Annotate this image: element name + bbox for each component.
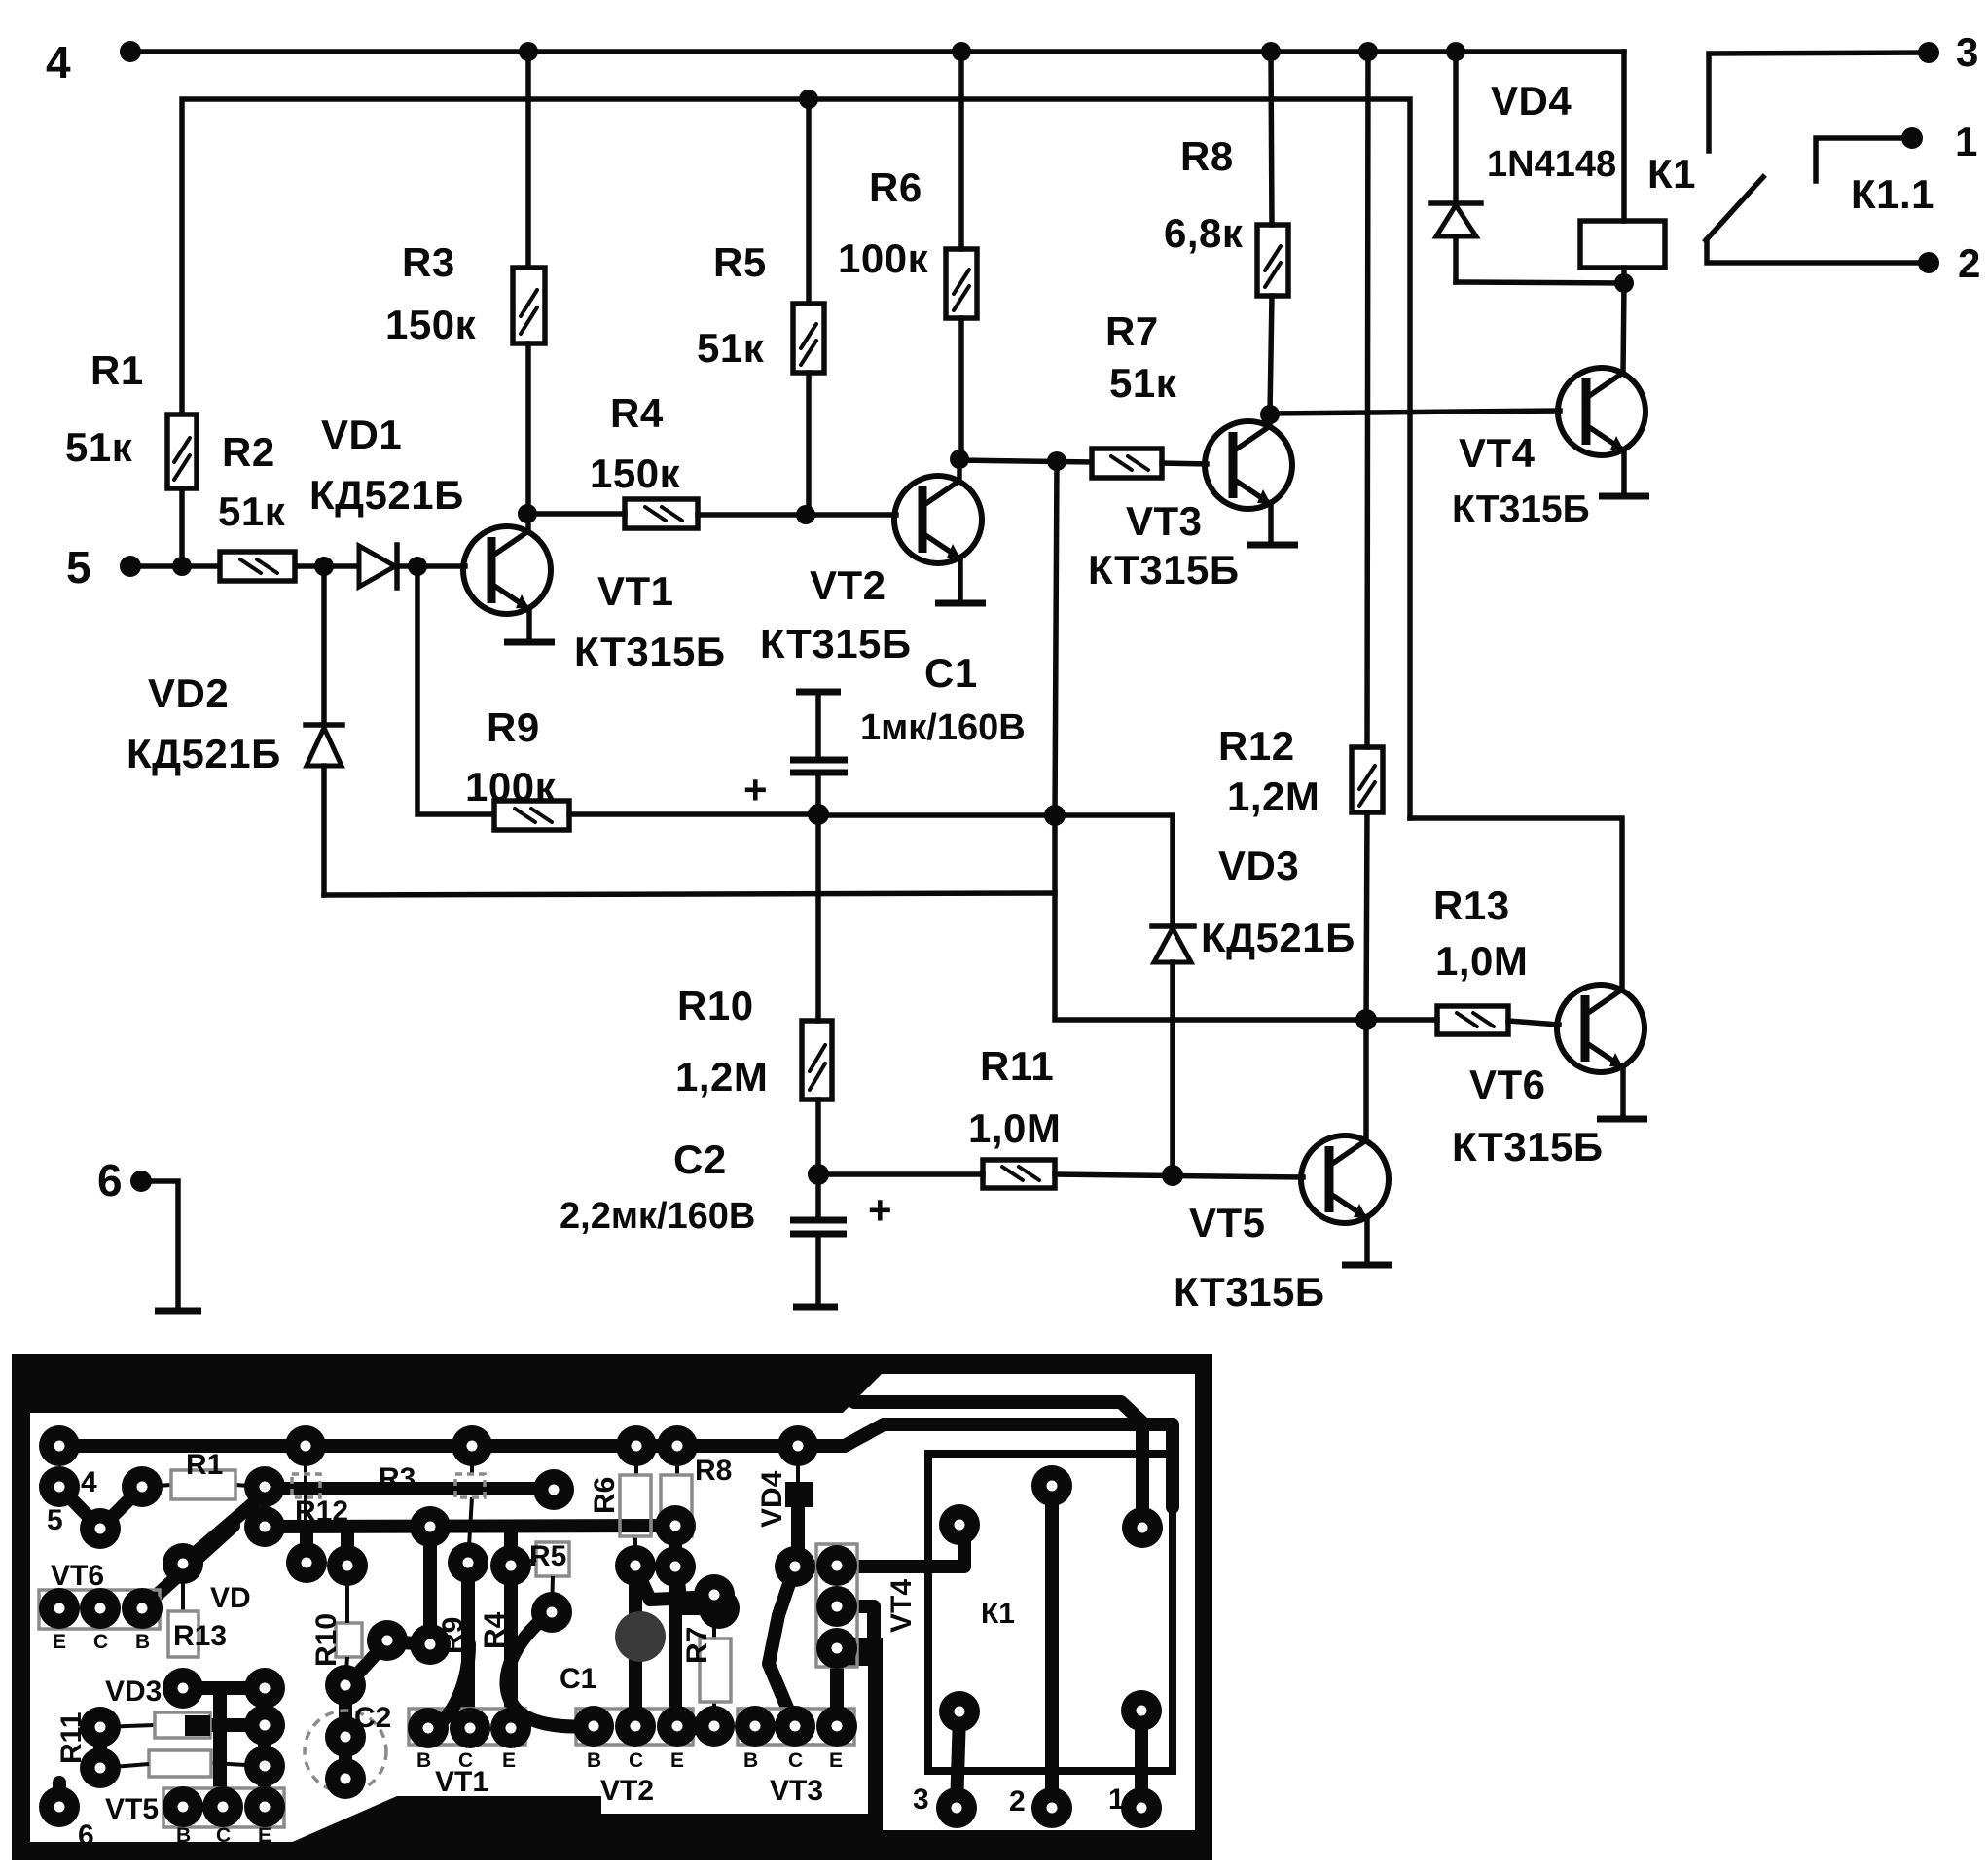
transistor VT6 [1557,985,1645,1072]
PCB trace: VT2 emitter column [669,1526,682,1726]
PCB outline: R3 right body [455,1474,485,1497]
node 6 terminal [130,1171,152,1192]
PCB outline: R13 [168,1611,199,1657]
PCB trace: top bus to relay area [798,1424,1173,1507]
svg-text:C: C [788,1749,803,1772]
svg-text:КТ315Б: КТ315Б [1088,547,1240,593]
PCB trace: x272 column [258,1688,271,1766]
node: junction dot relay coil bottom [1614,273,1634,293]
svg-text:4: 4 [81,1466,97,1498]
node: junction dot R5 top on y=102 rail [799,90,818,109]
svg-text:К1: К1 [1647,151,1696,197]
svg-text:E: E [502,1749,516,1772]
PCB lead: R3 to VT1 [468,1497,472,1563]
PCB pads [531,1592,572,1633]
svg-text:R3: R3 [402,239,455,285]
relay coil K1 [1580,221,1665,268]
wire: R1 bottom lead to node5 rail [179,488,185,566]
transistor VT3 [1205,421,1292,509]
PCB outline: VT4 [816,1544,857,1667]
svg-text:VT4: VT4 [1459,430,1536,476]
PCB lead: R5 link [510,1560,536,1566]
diode VD4 [1453,52,1459,203]
node: junction dot VT3 collector / R8 [1260,405,1280,424]
wire: node 1 to fixed contact [1816,138,1912,181]
wire: VT2 collector [957,459,962,481]
capacitor C1 [743,692,848,814]
svg-text:К1.1: К1.1 [1851,171,1934,217]
PCB lead: R7 bottom [712,1702,716,1726]
svg-text:2: 2 [1009,1785,1026,1818]
diode VD2 [321,566,327,725]
wire: R12 top lead [1367,52,1368,747]
svg-text:R6: R6 [589,1477,621,1514]
svg-text:К1: К1 [981,1598,1015,1630]
wire: second rail y=102 [182,99,1410,818]
resistor R8 [1257,225,1288,296]
node: junction dot C1/R9/R10 [808,804,829,825]
svg-text:C: C [629,1749,643,1772]
svg-text:R10: R10 [310,1613,343,1667]
PCB outline: VT2 [576,1709,693,1745]
wire: feedback vertical x=1084 [1055,461,1366,1020]
PCB trace: top supply bus [59,1439,798,1453]
node 5 terminal dot [120,556,141,577]
PCB outline: R1 [171,1470,235,1499]
svg-text:B: B [416,1749,431,1772]
svg-text:R11: R11 [980,1043,1054,1089]
resistor R9 [494,801,569,830]
PCB trace: x357 R10 top link [341,1530,354,1566]
PCB lead: R11b left [100,1764,149,1768]
PCB trace: C1 C-curve [506,1612,590,1726]
node: junction dot R12/VT5 collector/R13 [1355,1009,1377,1030]
diode VD1 [359,546,395,587]
wire: R5 top lead [806,99,812,304]
PCB outline: R11b [149,1750,211,1777]
svg-text:E: E [670,1749,684,1772]
wire: VT1 emitter to common bar [526,609,532,640]
wire: node 2 to blade pivot [1707,240,1929,263]
svg-text:КД521Б: КД521Б [309,472,464,518]
PCB trace: common down column [213,1688,227,1818]
wire: R8 bottom lead [1270,296,1272,414]
svg-text:VT2: VT2 [810,562,886,608]
ground bar VT5 emitter [1342,1262,1392,1269]
wire: relay coil bottom lead [1621,268,1627,283]
svg-text:51к: 51к [65,424,133,470]
wire: R7 right lead to VT3 base [1162,463,1207,464]
svg-text:VD1: VD1 [321,412,402,457]
svg-text:+: + [743,767,768,812]
svg-text:R8: R8 [1180,133,1234,179]
svg-text:R8: R8 [695,1455,732,1487]
svg-text:VT4: VT4 [886,1579,918,1633]
PCB outline: R8 [661,1475,692,1536]
PCB lead: R13 top [181,1564,185,1611]
svg-text:R5: R5 [713,239,767,285]
svg-text:КТ315Б: КТ315Б [1174,1269,1325,1315]
PCB: outer frame top band [12,1354,882,1413]
transistor VT2 [894,476,982,563]
PCB trace: V link pads 4-5 [59,1487,142,1529]
wire: R4 right lead to VT2 base [698,512,896,518]
resistor R6 [946,249,977,318]
ground bar VT6 emitter [1597,1116,1647,1123]
PCB: bottom border [12,1842,1212,1860]
svg-text:3: 3 [1956,29,1979,75]
node: junction dot feedback/R9 row [1044,805,1066,826]
svg-text:E: E [829,1749,843,1772]
svg-text:100к: 100к [838,235,929,281]
svg-text:+: + [868,1187,892,1233]
PCB trace: VT1 emitter column [504,1528,518,1566]
node: junction dot R2/VD2 [314,557,334,576]
svg-text:VT6: VT6 [51,1560,104,1592]
svg-text:R3: R3 [379,1462,416,1495]
svg-text:B: B [135,1631,150,1653]
wire: VT2 emitter [958,558,963,601]
wire: R8 top lead [1271,52,1272,225]
wire: VT5 emitter [1364,1218,1370,1263]
PCB component VD4 body [785,1482,813,1507]
node: junction dot R3 top on top rail [519,42,538,61]
PCB trace: VD4 body lead [791,1507,805,1567]
wire: contact blade K1.1 [1706,177,1763,240]
svg-text:B: B [743,1749,758,1772]
PCB outline: VT1 [409,1709,525,1745]
PCB trace: R11 right link [210,1718,265,1732]
wire: VT3 emitter [1268,504,1274,543]
PCB trace: VT3 collector squiggle [769,1567,795,1726]
PCB trace: VT1 collector column [461,1563,475,1728]
wire: R13 right lead to VT6 base [1508,1021,1559,1025]
PCB outline: R10 [336,1623,362,1657]
wire: +supply top rail from terminal 4 to relay K1 [130,49,1624,54]
PCB outline: R7 [700,1639,731,1702]
svg-text:VT2: VT2 [600,1775,654,1807]
PCB lead: R3 left pad [470,1446,474,1474]
svg-text:1: 1 [1955,119,1978,164]
wire: R9 right lead to C1 node [569,811,818,817]
resistor R11 [983,1160,1055,1188]
wire: R10 bottom lead [815,1099,821,1174]
svg-text:5: 5 [66,542,91,593]
PCB trace: diagonal D1 [183,1494,265,1564]
wire: R11 left lead [818,1171,983,1177]
svg-text:КТ315Б: КТ315Б [760,621,912,666]
svg-text:C: C [216,1824,231,1847]
node 1 terminal dot [1901,127,1923,149]
wire: VT4 emitter [1621,450,1627,494]
ground bar VT3 emitter [1247,542,1298,549]
ground bar C2 bottom [793,1304,838,1311]
ground bar C1 top [796,689,841,696]
PCB trace: C2 to R10 link [345,1529,430,1687]
svg-text:C2: C2 [673,1136,727,1182]
ground bar VT1 emitter [504,639,555,646]
wire: R3 bottom lead to VT1 collector node [525,343,531,514]
wire: relay coil top lead [1621,52,1627,221]
svg-text:VD2: VD2 [148,670,229,716]
resistor R1 [167,414,197,488]
PCB trace: VT4 middle pin [837,1606,874,1654]
PCB trace: R3 run [265,1482,554,1495]
PCB component body in R11a [185,1715,210,1736]
capacitor C2 [790,1174,892,1307]
wire: VT6 collector run from y=102 rail [1410,818,1622,990]
svg-text:R9: R9 [437,1617,469,1654]
svg-text:VD4: VD4 [756,1470,788,1528]
node: junction dot VT1 collector / R3 / R4 [518,504,537,523]
PCB trace: relay pad1 link [1135,1711,1148,1808]
svg-text:51к: 51к [1109,360,1177,406]
svg-text:VT5: VT5 [1189,1200,1266,1245]
PCB lead: R8 top [675,1446,679,1475]
resistor R4 [625,499,698,528]
wire: VT3 collector [1267,414,1273,426]
wire: R13 left lead [1366,1017,1437,1023]
PCB trace: VT3/VT4 emitter column [830,1648,844,1726]
svg-text:КТ315Б: КТ315Б [1452,1124,1604,1170]
svg-text:КД521Б: КД521Б [1201,915,1355,960]
svg-text:VT5: VT5 [105,1793,159,1825]
wire: VD1 node down to R9 [417,566,494,814]
svg-text:VD4: VD4 [1491,78,1572,124]
svg-text:VD3: VD3 [105,1675,162,1708]
PCB: right border [1195,1354,1212,1856]
resistor R10 [802,1021,832,1099]
svg-text:B: B [587,1749,601,1772]
PCB trace: R7 top link [677,1571,719,1608]
svg-text:R9: R9 [487,704,540,750]
svg-text:КТ315Б: КТ315Б [1452,488,1590,530]
svg-text:1: 1 [1108,1783,1125,1816]
PCB trace: middle bus [265,1526,675,1527]
svg-text:6: 6 [97,1155,123,1206]
svg-text:1мк/160В: 1мк/160В [860,707,1026,748]
wire: node row y=838 to VD3 corner [818,815,1173,926]
PCB lead: R1 left [142,1485,171,1487]
PCB lead: R8 bottom [673,1536,677,1567]
wire: VD2 anode run to feedback line [324,893,1055,895]
wire: R5 bottom lead [806,373,812,515]
PCB lead: R10 bottom [345,1657,347,1685]
svg-text:R1: R1 [90,347,144,393]
PCB outline: R3 left body [292,1474,320,1497]
svg-text:6,8к: 6,8к [1164,210,1244,256]
PCB lead: R6 bottom [633,1536,637,1566]
transistor VT5 [1301,1135,1389,1223]
resistor R2 [220,552,295,581]
resistor R12 [1352,747,1383,812]
transistor VT4 [1558,368,1645,455]
node: junction dot VD3/VT5 base [1162,1165,1183,1186]
svg-text:3: 3 [913,1783,929,1816]
wire: R6 top lead [958,52,964,249]
svg-text:VT3: VT3 [1126,498,1203,544]
PCB outline: R11a [155,1712,210,1738]
svg-text:1,2М: 1,2М [1227,774,1319,819]
svg-text:150к: 150к [590,450,681,496]
PCB: bottom black wedge [281,1796,874,1847]
PCB outline: R6 [620,1475,651,1536]
wire: VT6 emitter [1620,1067,1626,1117]
wire: VT5 collector [1363,1020,1369,1140]
PCB lead: R10 top [345,1566,349,1623]
wire: R12 bottom lead [1366,812,1367,1020]
wire: R4 left lead [527,511,625,517]
svg-text:E: E [258,1824,271,1847]
svg-text:C: C [458,1749,473,1772]
wire: R10 top lead [815,815,821,1021]
node 3 terminal dot [1918,42,1939,63]
wire: node 6 to ground bar [141,1181,178,1309]
svg-text:E: E [53,1631,66,1653]
svg-text:R6: R6 [869,164,922,210]
PCB trace: relay pad2 column [1045,1486,1059,1808]
ground bar VT4 emitter [1599,493,1649,500]
svg-text:51к: 51к [697,325,765,371]
PCB: black block left of relay [833,1638,883,1666]
svg-text:5: 5 [47,1504,63,1536]
wire: VT4 collector up to relay node [1623,284,1624,373]
ground bar VT2 emitter [935,600,986,607]
svg-text:R7: R7 [681,1627,713,1664]
PCB lead: R1 right [235,1485,265,1487]
svg-text:150к: 150к [385,302,477,347]
PCB outline: C2 circle [305,1711,386,1792]
svg-text:1,2М: 1,2М [675,1054,768,1099]
svg-text:R4: R4 [479,1611,511,1649]
PCB component C1 body blob [615,1611,666,1662]
node: junction dot R1/node5 [172,557,192,576]
svg-text:R4: R4 [610,390,664,436]
node: junction dot R12 line on top rail [1358,42,1378,61]
svg-text:2,2мк/160В: 2,2мк/160В [560,1196,755,1237]
svg-text:КТ315Б: КТ315Б [574,629,726,674]
svg-text:VT3: VT3 [770,1775,823,1807]
svg-text:C2: C2 [354,1702,391,1734]
resistor R13 [1437,1006,1508,1034]
PCB lead: R7 top [712,1605,716,1639]
svg-text:C1: C1 [924,650,978,696]
svg-text:6: 6 [78,1819,94,1852]
PCB outline: VT3 [738,1709,854,1745]
wire: VT2 collector node to R7 [959,460,1092,462]
svg-text:R5: R5 [529,1540,566,1572]
svg-text:1,0М: 1,0М [968,1105,1061,1151]
svg-text:VT1: VT1 [597,568,674,614]
PCB trace: C2 column [339,1685,352,1779]
svg-text:R10: R10 [677,983,754,1028]
PCB outline: relay K1 [928,1454,1173,1771]
PCB trace: R7 link [635,1567,714,1600]
PCB trace: relay pad3 link [957,1714,959,1808]
svg-text:C1: C1 [560,1663,596,1695]
svg-text:КД521Б: КД521Б [127,731,281,776]
svg-text:C: C [93,1631,108,1653]
resistor R5 [793,304,824,373]
PCB lead: VD4 top [796,1446,800,1482]
svg-text:VT6: VT6 [1469,1062,1546,1107]
node: junction dot feedback line tap [1047,451,1066,471]
svg-text:51к: 51к [218,488,286,534]
diode VD3 [1152,923,1194,929]
svg-text:4: 4 [46,37,71,88]
node: junction dot VD1 cathode [408,557,427,576]
PCB trace: diagonal D2 [142,1526,234,1608]
node: junction dot VT2 collector [950,450,969,469]
PCB outline: VT6 [39,1590,160,1629]
svg-text:100к: 100к [465,764,557,810]
svg-text:R1: R1 [186,1449,223,1481]
node: junction dot R5 bottom / R4 wire [796,505,815,524]
PCB lead: R11a left [100,1725,155,1727]
svg-text:VD: VD [210,1582,251,1614]
PCB lead: R12 top [304,1446,307,1524]
wire: VT1 collector [525,514,531,531]
node 4 terminal dot [120,41,141,62]
svg-text:R7: R7 [1105,308,1159,354]
svg-text:B: B [176,1824,191,1847]
svg-text:2: 2 [1958,240,1981,286]
svg-text:R2: R2 [222,429,275,475]
node: junction dot VD4 line on top rail [1446,42,1465,61]
wire: R6 bottom lead [958,318,964,459]
PCB trace: VT1-B curve [436,1644,469,1726]
transistor VT1 [463,526,551,614]
svg-text:R13: R13 [173,1620,227,1652]
PCB trace: VT2 collector column [629,1566,642,1726]
PCB lead: R6 top [634,1446,638,1475]
PCB: thin top border right part [862,1354,1212,1374]
svg-text:VD3: VD3 [1218,843,1299,888]
PCB trace: pad 6 stub [53,1783,66,1807]
ground bar node 6 [155,1308,201,1315]
node: junction dot R8 top on top rail [1261,42,1281,61]
wire: node 5 rail [130,563,465,569]
PCB: left border [12,1354,30,1860]
svg-text:R12: R12 [295,1495,348,1528]
PCB lead: R11b right [211,1763,265,1766]
wire: R3 top lead [525,52,531,268]
PCB lead: R5 body [536,1542,569,1576]
PCB outline: VT5 [163,1788,284,1827]
svg-text:1,0М: 1,0М [1435,938,1528,984]
PCB trace: x272 to VT5 [258,1766,271,1807]
svg-text:R13: R13 [1433,882,1510,928]
svg-text:R12: R12 [1218,723,1295,769]
PCB trace: VD4 row to relay [795,1526,964,1567]
svg-text:R11: R11 [55,1712,88,1764]
PCB lead: R5 bottom [552,1576,553,1612]
PCB trace: R11 left column [93,1727,107,1768]
wire: R11 right lead to VT5 base [1055,1174,1303,1177]
PCB trace: band to relay pad 1 [854,1402,1142,1528]
wire: node 3 to fixed contact [1709,53,1929,151]
PCB trace: VD3 row [183,1681,265,1695]
wire: VD4 anode to relay bottom node [1456,282,1624,283]
resistor R3 [513,268,545,343]
resistor R7 [1092,449,1162,478]
node: junction dot R10/C2/R11 [808,1164,829,1185]
svg-text:1N4148: 1N4148 [1487,144,1616,185]
relay contact K1.1 [1706,29,1981,286]
PCB trace: column x315 [300,1530,313,1563]
node 2 terminal dot [1918,252,1939,273]
wire: VT3 collector node to VT4 base [1270,411,1560,414]
